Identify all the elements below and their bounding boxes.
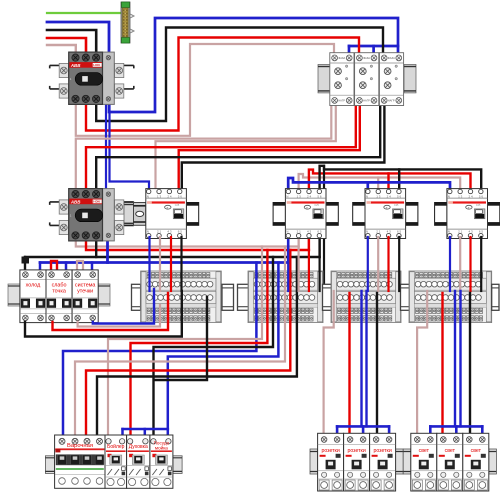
wire L3 RCD3 into TB3 [398, 237, 400, 291]
DIN rail stub right of breaker group [98, 284, 110, 306]
svg-text:свет: свет [419, 448, 430, 454]
wire L1 drop to RCD3 [377, 178, 379, 191]
wire L1 riser to module U1 [76, 44, 334, 136]
svg-text:слабо: слабо [52, 282, 67, 288]
svg-text:ABB: ABB [70, 63, 81, 68]
terminal block TB1 [141, 271, 222, 323]
svg-text:N: N [286, 195, 288, 199]
svg-text:2 4: 2 4 [307, 195, 312, 199]
wire L2 TB1 to breaker F2 [53, 293, 169, 330]
wire L1 RCD4 into TB4 [459, 237, 461, 291]
wire N drop light breaker [429, 426, 432, 437]
wire N RCD4 into TB4 [449, 237, 451, 291]
wire L3 TB3 to socket breaker 3 [376, 293, 378, 437]
svg-text:6 5: 6 5 [397, 229, 402, 233]
wire L1 TB4 to light breaker 1 [417, 291, 427, 437]
svg-text:5 6: 5 6 [178, 195, 183, 199]
terminal block TB2 [248, 271, 323, 323]
wire L3 RCD4 into TB4 [480, 237, 482, 291]
breaker F1 fridge [20, 270, 46, 323]
wire N bus sockets [337, 425, 389, 428]
wire L3 drop QS2 [95, 237, 97, 257]
wire N RCD1 into TB1 [148, 237, 150, 291]
wire L2 module U2 out to QS2 [86, 103, 356, 192]
wire N drop module U1 [348, 46, 351, 55]
wire L1 TB1 to breaker F3 [78, 305, 160, 327]
svg-text:утечки: утечки [77, 289, 93, 295]
svg-text:I-ON: I-ON [93, 63, 99, 67]
DIN rail modules right [404, 65, 416, 93]
wire N bus kitchen breakers [123, 428, 168, 431]
svg-text:6 5: 6 5 [479, 229, 484, 233]
wire N bus QS2 to RCD2 and breaker group [40, 261, 288, 264]
svg-text:2 4: 2 4 [387, 195, 392, 199]
svg-text:ФАЗА: ФАЗА [363, 56, 370, 60]
wire N drop QS2 [106, 237, 109, 263]
svg-text:мойка: мойка [155, 444, 168, 450]
connector block on breaker F1 feed [22, 257, 30, 264]
voltage monitor U3 [379, 53, 403, 106]
wire L3 bus through TB2 to cooktop breaker [97, 257, 297, 437]
wire L3 RCD1 into TB1 [180, 237, 182, 291]
wire L1 bus through TB2 to boiler breaker [108, 247, 262, 438]
wire N bus across RCD row [288, 178, 450, 190]
DIN rail piece between TB1 TB2 b [238, 284, 250, 310]
svg-text:2 1: 2 1 [157, 229, 162, 233]
wire L2 RCD4 into TB4 [469, 237, 471, 291]
svg-text:НАГР: НАГР [363, 99, 370, 103]
svg-text:ФАЗА: ФАЗА [388, 56, 395, 60]
wire N TB1 to breaker F3 [93, 289, 154, 324]
svg-text:свет: свет [445, 448, 456, 454]
svg-text:5 6: 5 6 [397, 195, 402, 199]
svg-text:свет: свет [471, 448, 482, 454]
wire L3 bus QS2 to RCD2 and breaker F1 [25, 256, 320, 258]
switch QS2 ABB [50, 189, 134, 241]
wire N bus lights [430, 425, 482, 428]
svg-text:C25: C25 [314, 204, 319, 207]
wire L3 module U3 out to RCD1 [182, 103, 385, 190]
svg-text:N: N [366, 229, 368, 233]
svg-text:C25: C25 [476, 204, 481, 207]
DIN rail piece between TB2 TB3 [323, 284, 332, 310]
svg-text:2 1: 2 1 [297, 229, 302, 233]
terminal block TB3 [331, 271, 401, 323]
svg-text:2 1: 2 1 [376, 229, 381, 233]
voltage monitor U1 [330, 53, 354, 106]
wire L3 RCD2 into TB2 [319, 240, 321, 291]
wire L1 TB3 to socket breaker 1 [324, 291, 334, 437]
wire L2 RCD1 into TB1 [170, 237, 172, 291]
wire L1 RCD1 into TB1 [159, 237, 161, 291]
svg-text:4 3: 4 3 [167, 229, 172, 233]
wire N drop oven [144, 429, 147, 437]
svg-text:I-ON: I-ON [93, 200, 99, 204]
svg-text:4 3: 4 3 [387, 229, 392, 233]
svg-text:холод: холод [26, 282, 42, 288]
wire N bus through TB2 to cooktop breaker [63, 263, 256, 438]
svg-text:4 3: 4 3 [469, 229, 474, 233]
wire L1 bus QS2 to RCD2 [76, 237, 299, 247]
wire L1 module U1 out to RCD1 [156, 103, 336, 190]
wire L2 module U2 out to RCD1 [179, 103, 360, 190]
wire L3 rise to RCD2 [318, 240, 320, 257]
svg-text:6 5: 6 5 [317, 229, 322, 233]
wire N feed blue into main switch QS1 [47, 22, 109, 53]
wire L3 bus through TB2 to dishwasher breaker [154, 257, 274, 437]
wire N TB3 to socket bus a [360, 291, 362, 426]
wire N QS1 to RCD1 [110, 104, 150, 190]
wire N bus through TB2 to kitchen bus [168, 263, 279, 430]
voltage monitor U2 [355, 53, 379, 106]
wire L2 drop to RCD3 [387, 173, 389, 190]
wire N drop dishwasher [167, 429, 170, 437]
wire L3 tap down beside RCD2 to TB2 [323, 166, 325, 300]
wire L2 TB3 to socket breaker 2 [348, 293, 350, 437]
wire L3 feed black into QS1 [47, 30, 96, 58]
svg-text:N: N [366, 195, 368, 199]
svg-text:N: N [448, 229, 450, 233]
breaker F3 leak system [72, 270, 98, 323]
wire L2 bus through TB2 to oven breaker [131, 250, 268, 437]
RCD QF3 [353, 189, 418, 239]
wire L3 drop to RCD3 [398, 169, 400, 190]
svg-text:1 3: 1 3 [157, 195, 162, 199]
wire L1 bus RCD2 to RCD4 [299, 174, 461, 190]
wire L2 feed red into QS1 [47, 38, 86, 58]
RCD QF4 [435, 189, 500, 239]
wire N drop socket breaker [388, 426, 391, 437]
wire L1 RCD3 into TB3 [377, 237, 379, 291]
wire N drop RCD3 [366, 182, 369, 190]
svg-text:ABB: ABB [70, 199, 81, 204]
wire N drop boiler [121, 429, 124, 437]
svg-text:N: N [286, 229, 288, 233]
svg-text:Бойлер: Бойлер [107, 443, 125, 450]
svg-text:розетки: розетки [321, 448, 339, 454]
svg-text:2 4: 2 4 [469, 195, 474, 199]
main switch QS1 ABB [50, 52, 134, 104]
wire L2 bus RCD2 to RCD4 [309, 170, 471, 190]
svg-text:4 3: 4 3 [307, 229, 312, 233]
DIN rail piece right of TB4 [492, 284, 499, 310]
wire L2 jumper breaker F2 [51, 261, 57, 270]
wire L3 bus RCD2 to RCD4 [320, 166, 482, 190]
svg-text:1 3: 1 3 [297, 195, 302, 199]
wire L2 RCD3 into TB3 [387, 237, 389, 291]
RCD QF1 [134, 189, 199, 239]
svg-text:НАГР: НАГР [338, 99, 345, 103]
wire L1 RCD2 into TB2 [298, 240, 300, 291]
wire L2 RCD2 into TB2 [308, 240, 310, 291]
svg-text:Духовка: Духовка [129, 444, 148, 450]
svg-text:2 1: 2 1 [458, 229, 463, 233]
wire L3 module U3 out to QS2 [96, 103, 380, 192]
wire PE green feed to ground bar [47, 12, 120, 14]
wire N RCD2 into TB2 [287, 240, 289, 291]
svg-text:точка: точка [52, 289, 66, 295]
wire N drop module U2 [372, 46, 375, 55]
DIN rail piece between TB1 TB2 a [222, 284, 234, 310]
wire L1 rise to RCD2 [298, 240, 300, 247]
wire N drop breaker F1 [39, 263, 42, 272]
svg-text:система: система [75, 282, 96, 288]
terminal block TB4 [409, 271, 492, 323]
DIN rail piece left of TB1 [132, 284, 141, 310]
PE ground bus bar [121, 2, 134, 43]
wire N drop light breaker [481, 426, 484, 437]
breaker group sockets [310, 433, 403, 491]
svg-text:5 6: 5 6 [317, 195, 322, 199]
wire L3 into breaker F1 [24, 257, 26, 271]
svg-text:1 3: 1 3 [458, 195, 463, 199]
wire L3 TB1 to breaker F1 [25, 291, 182, 337]
wire N drop breaker F2 [65, 263, 68, 272]
svg-text:2 4: 2 4 [167, 195, 172, 199]
DIN rail stub left of breaker group [8, 284, 20, 306]
wire L3 TB4 to light breaker 3 [469, 293, 471, 437]
wire N TB4 to light bus a [454, 291, 456, 426]
wire N TB4 to light bus b [459, 291, 461, 426]
svg-text:6 5: 6 5 [178, 229, 183, 233]
wire L1 jumper breaker F3 [77, 261, 83, 270]
wire L2 riser to module U2 [86, 38, 359, 131]
wire L3 TB1 to dishwasher junction [155, 297, 208, 380]
wire L2 TB4 to light breaker 2 [441, 293, 443, 437]
wire L1 feed pink into QS1 [47, 45, 76, 58]
wire N RCD3 into TB3 [367, 237, 369, 291]
wire N drop socket breaker [362, 426, 365, 437]
wire L2 bus through TB2 to cooktop breaker [86, 250, 290, 437]
wire N riser QS1 to module bus [109, 18, 398, 112]
wire L3 riser to module U3 [96, 28, 383, 122]
svg-text:Варочная: Варочная [67, 443, 93, 449]
svg-text:N: N [147, 195, 149, 199]
svg-text:1 3: 1 3 [376, 195, 381, 199]
wire N drop socket breaker [336, 426, 339, 437]
svg-text:C25: C25 [394, 204, 399, 207]
svg-text:розетки: розетки [373, 448, 391, 454]
svg-text:C25: C25 [175, 204, 180, 207]
breaker group cooktop boiler oven dishwasher [45, 435, 182, 488]
wire L1 module U1 out to QS2 [76, 103, 331, 192]
svg-text:N: N [147, 229, 149, 233]
wire L1 bus through TB2 to cooktop breaker [75, 247, 285, 438]
DIN rail modules left [318, 65, 330, 93]
RCD QF2 [273, 189, 338, 239]
wire N rise to RCD2 N [287, 240, 290, 263]
wire N QS1 to QS2 [105, 104, 107, 192]
breaker group lights [403, 433, 496, 491]
DIN rail piece between TB3 TB4 [401, 284, 410, 310]
wire L2 bus QS2 to RCD2 [86, 237, 309, 250]
svg-text:ФАЗА: ФАЗА [338, 56, 345, 60]
svg-text:НАГР: НАГР [388, 99, 395, 103]
DIN rail row2 left of RCD1 [124, 203, 134, 226]
wire N bus over modules [349, 45, 398, 48]
svg-text:N: N [448, 195, 450, 199]
wire N drop breaker F3 [91, 263, 94, 272]
svg-text:5 6: 5 6 [479, 195, 484, 199]
wire N TB3 to socket bus b [365, 291, 367, 426]
svg-text:розетки: розетки [347, 448, 365, 454]
wire N drop light breaker [455, 426, 458, 437]
wire L2 rise to RCD2 [308, 240, 310, 250]
breaker F2 low current [46, 270, 72, 323]
